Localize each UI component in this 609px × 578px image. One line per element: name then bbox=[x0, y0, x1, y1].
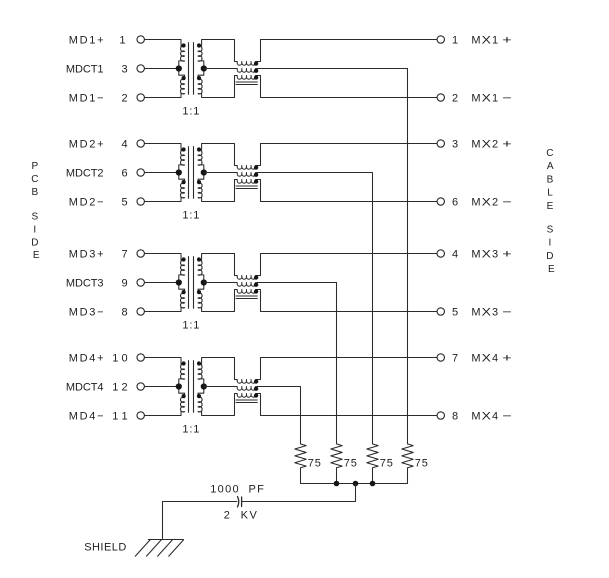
svg-text:6: 6 bbox=[452, 197, 458, 209]
transformer T3 (1:1 isolation transformer) bbox=[176, 254, 207, 312]
wire T2 secondary bottom to choke L2 bbox=[202, 201, 235, 203]
svg-text:1: 1 bbox=[119, 35, 125, 47]
pin MX1- (pin 2) bbox=[437, 94, 444, 101]
wire choke L1 centre tap down to R4 (rail) bbox=[256, 69, 408, 444]
pin MD1+ (pin 1) bbox=[137, 36, 144, 43]
wire MDCT4 to T4 primary centre tap bbox=[144, 386, 178, 388]
svg-text:SHIELD: SHIELD bbox=[84, 542, 126, 554]
wire T3 secondary centre tap to choke L3 bbox=[204, 282, 237, 284]
wire T4 secondary centre tap to choke L4 bbox=[204, 386, 237, 388]
pin MDCT3 (pin 9) bbox=[137, 279, 144, 286]
svg-text:MX2−: MX2− bbox=[471, 197, 511, 209]
svg-text:MD4−: MD4− bbox=[69, 411, 104, 423]
pin MX4+ (pin 7) bbox=[437, 354, 444, 361]
resistor R1 75 ohm bbox=[295, 444, 306, 484]
wire T4 secondary bottom to choke L4 bbox=[202, 415, 235, 417]
pin MD4- (pin 11) bbox=[137, 412, 144, 419]
common-mode choke L4 bbox=[235, 358, 261, 416]
common-mode choke L3 bbox=[235, 254, 261, 312]
wire T4 secondary top to choke L4 bbox=[202, 357, 235, 359]
svg-text:8: 8 bbox=[121, 307, 127, 319]
svg-text:3: 3 bbox=[452, 139, 458, 151]
svg-text:9: 9 bbox=[121, 278, 127, 290]
wire MD2- to T2 primary bottom bbox=[144, 201, 181, 203]
svg-text:75: 75 bbox=[308, 458, 321, 470]
svg-text:5: 5 bbox=[121, 197, 127, 209]
wire: bus down to capacitor C1 bbox=[242, 484, 356, 502]
wire choke L2 centre tap down to R3 (rail) bbox=[256, 173, 373, 444]
wire T1 secondary bottom to choke L1 bbox=[202, 97, 235, 99]
svg-text:C A B L E S I D E: C A B L E S I D E bbox=[546, 148, 556, 275]
wire choke L4 centre tap down to R1 (rail) bbox=[256, 387, 301, 444]
wire choke L3 centre tap down to R2 (rail) bbox=[256, 283, 337, 444]
svg-text:2: 2 bbox=[121, 93, 127, 105]
svg-text:75: 75 bbox=[415, 458, 428, 470]
svg-text:MX4+: MX4+ bbox=[471, 353, 511, 365]
svg-text:7: 7 bbox=[121, 249, 127, 261]
wire choke L3 to MX3- bbox=[261, 311, 438, 313]
wire T2 secondary centre tap to choke L2 bbox=[204, 172, 237, 174]
wire T3 secondary top to choke L3 bbox=[202, 253, 235, 255]
svg-text:5: 5 bbox=[452, 307, 458, 319]
wire MD3- to T3 primary bottom bbox=[144, 311, 181, 313]
transformer T2 (1:1 isolation transformer) bbox=[176, 144, 207, 202]
svg-text:MDCT4: MDCT4 bbox=[66, 382, 104, 394]
svg-text:MX3+: MX3+ bbox=[471, 249, 511, 261]
wire T3 secondary bottom to choke L3 bbox=[202, 311, 235, 313]
svg-text:1:1: 1:1 bbox=[182, 209, 199, 221]
pin MX1+ (pin 1) bbox=[437, 36, 444, 43]
svg-text:1: 1 bbox=[452, 35, 458, 47]
transformer T4 (1:1 isolation transformer) bbox=[176, 358, 207, 416]
resistor R3 75 ohm bbox=[367, 444, 378, 484]
pin MD1- (pin 2) bbox=[137, 94, 144, 101]
wire MDCT2 to T2 primary centre tap bbox=[144, 172, 178, 174]
wire MD4+ to T4 primary top bbox=[144, 357, 181, 359]
pin MD4+ (pin 10) bbox=[137, 354, 144, 361]
junction on bus at R3 bbox=[370, 481, 376, 487]
svg-text:MD1+: MD1+ bbox=[69, 35, 104, 47]
junction on bus at R2 bbox=[334, 481, 340, 487]
svg-text:8: 8 bbox=[452, 411, 458, 423]
svg-text:75: 75 bbox=[344, 458, 357, 470]
pin MD2+ (pin 4) bbox=[137, 140, 144, 147]
wire choke L1 to MX1- bbox=[261, 97, 438, 99]
wire MD1- to T1 primary bottom bbox=[144, 97, 181, 99]
svg-text:1:1: 1:1 bbox=[182, 423, 199, 435]
svg-text:MDCT3: MDCT3 bbox=[66, 278, 104, 290]
wire choke L2 to MX2+ bbox=[261, 143, 438, 145]
svg-text:MX3−: MX3− bbox=[471, 307, 511, 319]
pin MX3+ (pin 4) bbox=[437, 250, 444, 257]
svg-text:MD3−: MD3− bbox=[69, 307, 104, 319]
capacitor C1 1000pF 2kV bbox=[238, 497, 242, 507]
wire T1 secondary centre tap to choke L1 bbox=[204, 68, 237, 70]
common-mode choke L2 bbox=[235, 144, 261, 202]
pin MD2- (pin 5) bbox=[137, 198, 144, 205]
junction on bus at capacitor riser bbox=[353, 481, 359, 487]
svg-text:MD2−: MD2− bbox=[69, 197, 104, 209]
svg-text:4: 4 bbox=[452, 249, 458, 261]
wire choke L1 to MX1+ bbox=[261, 39, 438, 41]
svg-text:2: 2 bbox=[452, 93, 458, 105]
svg-text:1:1: 1:1 bbox=[182, 105, 199, 117]
svg-text:2 KV: 2 KV bbox=[224, 509, 258, 521]
wire choke L2 to MX2- bbox=[261, 201, 438, 203]
pin MX2+ (pin 3) bbox=[437, 140, 444, 147]
svg-text:75: 75 bbox=[380, 458, 393, 470]
pin MX2- (pin 6) bbox=[437, 198, 444, 205]
svg-text:1:1: 1:1 bbox=[182, 319, 199, 331]
svg-text:MD4+: MD4+ bbox=[69, 353, 104, 365]
wire T1 secondary top to choke L1 bbox=[202, 39, 235, 41]
svg-text:MDCT2: MDCT2 bbox=[66, 168, 104, 180]
svg-text:MD3+: MD3+ bbox=[69, 249, 104, 261]
svg-text:MD1−: MD1− bbox=[69, 93, 104, 105]
pin MDCT2 (pin 6) bbox=[137, 169, 144, 176]
pin MX4- (pin 8) bbox=[437, 412, 444, 419]
pin MDCT4 (pin 12) bbox=[137, 383, 144, 390]
svg-text:7: 7 bbox=[452, 353, 458, 365]
svg-text:MX1+: MX1+ bbox=[471, 35, 511, 47]
svg-text:MX2+: MX2+ bbox=[471, 139, 511, 151]
wire MD4- to T4 primary bottom bbox=[144, 415, 181, 417]
svg-text:P C B S I D E: P C B S I D E bbox=[31, 161, 41, 261]
svg-text:3: 3 bbox=[121, 64, 127, 76]
svg-text:MDCT1: MDCT1 bbox=[66, 64, 104, 76]
wire choke L3 to MX3+ bbox=[261, 253, 438, 255]
svg-text:MD2+: MD2+ bbox=[69, 139, 104, 151]
pin MD3- (pin 8) bbox=[137, 308, 144, 315]
pin MX3- (pin 5) bbox=[437, 308, 444, 315]
pin MDCT1 (pin 3) bbox=[137, 65, 144, 72]
wire: capacitor C1 to shield ground bbox=[163, 502, 238, 540]
svg-text:MX1−: MX1− bbox=[471, 93, 511, 105]
wire MD2+ to T2 primary top bbox=[144, 143, 181, 145]
svg-text:MX4−: MX4− bbox=[471, 411, 511, 423]
wire T2 secondary top to choke L2 bbox=[202, 143, 235, 145]
wire MDCT1 to T1 primary centre tap bbox=[144, 68, 178, 70]
wire MD1+ to T1 primary top bbox=[144, 39, 181, 41]
svg-text:4: 4 bbox=[121, 139, 127, 151]
wire: common bus joining resistor bottoms bbox=[301, 483, 408, 485]
resistor R4 75 ohm bbox=[402, 444, 413, 484]
wire choke L4 to MX4+ bbox=[261, 357, 438, 359]
transformer T1 (1:1 isolation transformer) bbox=[176, 40, 207, 98]
wire choke L4 to MX4- bbox=[261, 415, 438, 417]
wire MDCT3 to T3 primary centre tap bbox=[144, 282, 178, 284]
pin MD3+ (pin 7) bbox=[137, 250, 144, 257]
chassis ground symbol (shield) bbox=[135, 540, 184, 557]
resistor R2 75 ohm bbox=[331, 444, 342, 484]
wire MD3+ to T3 primary top bbox=[144, 253, 181, 255]
common-mode choke L1 bbox=[235, 40, 261, 98]
svg-text:6: 6 bbox=[121, 168, 127, 180]
